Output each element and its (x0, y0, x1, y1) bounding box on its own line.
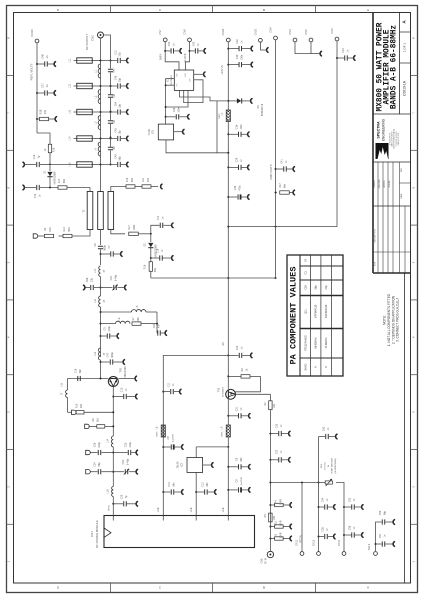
svg-text:C28: C28 (173, 107, 176, 112)
svg-text:KTY-63: KTY-63 (325, 462, 327, 470)
capacitor C59 (110, 139, 112, 147)
svg-text:RF POWER MODULE: RF POWER MODULE (95, 520, 99, 548)
svg-text:MRF6V4160: MRF6V4160 (325, 304, 328, 318)
svg-text:18p: 18p (119, 130, 122, 135)
zone ticks top margin (110, 5, 112, 13)
terminal CN4 (293, 38, 297, 42)
svg-text:8n2: 8n2 (113, 68, 116, 73)
wire row 2 (93, 85, 101, 87)
svg-text:RF OUTPUT: RF OUTPUT (85, 34, 89, 50)
capacitor C5 (100, 335, 102, 337)
svg-text:CN9: CN9 (269, 27, 273, 33)
svg-text:(IN HEATSINK): (IN HEATSINK) (334, 458, 337, 473)
capacitor C12 (110, 60, 112, 62)
svg-text:C23: C23 (236, 345, 239, 350)
svg-text:CN5: CN5 (304, 29, 308, 35)
wire row 5 (93, 164, 101, 166)
node D2 top (150, 233, 152, 235)
svg-text:C10: C10 (121, 387, 124, 392)
svg-text:10R: 10R (273, 404, 276, 409)
wire row 3 (93, 111, 101, 113)
approvals table (373, 161, 411, 163)
resistor R2 vertical (269, 394, 271, 401)
wire T1 left top (89, 188, 91, 192)
svg-text:MRF1535: MRF1535 (123, 366, 127, 378)
capacitor C30 (227, 64, 229, 66)
title section divider (373, 113, 411, 115)
svg-text:TR1: TR1 (119, 367, 123, 372)
terminal CN14 (342, 552, 346, 556)
wire PTT branch (269, 482, 271, 484)
svg-text:L11: L11 (69, 58, 72, 62)
resistor R3 (45, 234, 54, 237)
capacitor C47 (100, 361, 102, 363)
terminal CN21 (259, 38, 263, 42)
svg-text:150R: 150R (278, 520, 282, 526)
svg-text:C38: C38 (322, 527, 325, 532)
svg-text:A: A (367, 8, 369, 12)
capacitor C31 (110, 61, 112, 69)
inductor L13 (99, 348, 101, 360)
capacitor C7 (100, 253, 102, 255)
size box A (400, 31, 411, 33)
svg-text:56p: 56p (119, 156, 122, 161)
svg-text:NOTE:: NOTE: (383, 315, 387, 325)
wire CN3 rail (336, 41, 338, 227)
capacitor C52 stub (343, 506, 345, 508)
svg-text:C22: C22 (153, 323, 156, 328)
svg-text:78L05: 78L05 (177, 461, 180, 468)
wire IC5 bottom (166, 140, 217, 153)
svg-text:R12: R12 (273, 521, 277, 526)
svg-text:TR2: TR2 (218, 387, 221, 392)
svg-text:C40: C40 (342, 48, 345, 53)
svg-text:100R: 100R (278, 532, 282, 538)
wire CN4 CN5 ground (295, 42, 311, 54)
svg-text:A: A (367, 586, 369, 590)
wire x318 down (318, 483, 320, 552)
svg-text:2k2: 2k2 (97, 417, 100, 422)
resistor R8 bridge (227, 375, 229, 377)
capacitor C44 (110, 86, 112, 94)
bypass stub top (151, 225, 160, 234)
capacitor C16 (77, 376, 79, 381)
svg-text:R47: R47 (279, 183, 282, 188)
logo mark (376, 143, 389, 159)
svg-text:3. CONNECT PADS G,H,D,E,J: 3. CONNECT PADS G,H,D,E,J (396, 298, 400, 342)
resistor R7 (132, 322, 141, 325)
svg-text:56p: 56p (98, 462, 101, 467)
wire x157 (156, 312, 158, 333)
svg-text:IC5: IC5 (152, 129, 155, 133)
stripline L14 (74, 138, 93, 140)
svg-text:FWD VOLTS: FWD VOLTS (269, 164, 273, 179)
svg-text:C37: C37 (276, 449, 279, 454)
svg-text:100n: 100n (240, 124, 243, 130)
terminal CN6 RF IN (267, 551, 273, 557)
svg-text:18p: 18p (113, 146, 116, 151)
svg-text:+12V IN: +12V IN (220, 65, 224, 75)
choke L9 (226, 425, 230, 437)
ground IC3 right (198, 73, 203, 75)
terminal CN7 (163, 38, 167, 42)
diode D5 (227, 100, 229, 102)
svg-text:C43: C43 (192, 41, 195, 46)
svg-text:68n: 68n (240, 457, 243, 462)
pad B (33, 234, 38, 238)
svg-text:56R: 56R (68, 227, 71, 232)
inductor L5 (132, 310, 147, 312)
svg-text:C34: C34 (322, 497, 325, 502)
svg-text:C50: C50 (379, 510, 382, 515)
svg-text:REFL VOLTS: REFL VOLTS (30, 63, 34, 80)
terminal CN10 (35, 39, 39, 43)
svg-text:470u: 470u (239, 185, 242, 191)
resistor R14 (58, 186, 67, 189)
capacitor C20 (112, 503, 114, 505)
svg-text:C48: C48 (115, 75, 118, 80)
wire TR2 down (227, 398, 229, 425)
svg-text:C13: C13 (34, 193, 37, 198)
svg-text:CV2: CV2 (122, 459, 125, 464)
PA component values table (287, 255, 343, 376)
svg-text:MRC: MRC (222, 431, 224, 436)
svg-text:18p: 18p (113, 93, 116, 98)
svg-text:120p: 120p (129, 442, 132, 448)
resistor R47 (275, 192, 277, 194)
capacitor C63 (110, 112, 112, 120)
svg-text:B: B (263, 8, 265, 12)
svg-text:CN7: CN7 (158, 29, 162, 35)
svg-text:C29: C29 (236, 157, 239, 162)
terminal CN22 +12V (226, 38, 230, 42)
svg-text:C35: C35 (234, 185, 237, 190)
stripline L15 (73, 164, 93, 166)
capacitor C58 stub (343, 534, 345, 536)
capacitor C21 stub (227, 415, 229, 417)
inductor L16 (112, 487, 114, 497)
svg-text:PTT IN: PTT IN (300, 535, 303, 543)
svg-text:BZW03C16: BZW03C16 (261, 103, 264, 116)
svg-text:74-88MHz: 74-88MHz (325, 337, 328, 349)
wire stub x113 (112, 516, 114, 521)
capacitor C43 (189, 50, 191, 52)
svg-text:C49: C49 (115, 154, 118, 159)
svg-text:C46: C46 (41, 54, 45, 59)
svg-text:PA COMPONENT VALUES: PA COMPONENT VALUES (289, 267, 299, 365)
resistor R17 (129, 232, 139, 235)
svg-text:TEMP SENSOR: TEMP SENSOR (332, 458, 334, 474)
wire choke bypass (217, 101, 228, 153)
trimmer CV2 (113, 471, 124, 473)
terminal CN8 (188, 38, 192, 42)
wire TR1 base row (68, 378, 109, 380)
wire branch y312 (100, 311, 102, 313)
capacitor C41 (275, 168, 277, 170)
terminal CN5 (309, 38, 313, 42)
svg-text:C58: C58 (349, 525, 352, 530)
svg-text:68p: 68p (384, 510, 387, 515)
wire row 4 (93, 138, 101, 140)
inductor L2 (98, 90, 100, 104)
inductor L3 (98, 116, 100, 130)
svg-text:560p: 560p (104, 245, 107, 251)
wire to +12V rail (180, 93, 218, 101)
zone ticks bottom margin (110, 583, 112, 593)
capacitor C32 (227, 48, 229, 50)
svg-text:18p: 18p (113, 119, 116, 124)
capacitor C38 stub (318, 536, 320, 538)
svg-text:4u7/63V: 4u7/63V (173, 433, 175, 442)
svg-text:C11: C11 (168, 382, 171, 387)
svg-text:10k: 10k (43, 109, 47, 114)
wire RF output right to cap ladder (104, 35, 111, 61)
inductor L6 (116, 321, 131, 323)
svg-text:R1: R1 (273, 533, 277, 537)
svg-text:C12: C12 (202, 482, 205, 487)
svg-text:DRAWN: DRAWN (373, 180, 376, 188)
resistor R15 (126, 185, 135, 188)
svg-text:CN2: CN2 (91, 35, 95, 41)
wire C50 cluster (376, 522, 382, 551)
revision table (377, 206, 379, 273)
capacitor C33 stub (269, 433, 271, 435)
svg-text:L16: L16 (107, 489, 110, 494)
svg-text:+VE: +VE (189, 507, 193, 512)
wire CN10 down (36, 43, 38, 133)
wire CN8 down (185, 42, 189, 70)
wire jog to R19 (37, 133, 50, 144)
svg-text:L17: L17 (94, 268, 97, 273)
svg-text:100n: 100n (240, 54, 243, 60)
sheet box 1 OF 1 (400, 62, 411, 64)
terminal CN2 RF OUTPUT (98, 32, 104, 38)
stripline L12 (74, 85, 93, 87)
capacitor C51 (376, 543, 382, 545)
resistor R12 stub (269, 526, 271, 528)
capacitor C29 (227, 166, 229, 168)
capacitor C42 (164, 50, 166, 52)
svg-text:CLOCK: CLOCK (183, 53, 187, 62)
svg-text:APPR'D: APPR'D (383, 180, 386, 188)
svg-text:FAX 94 10 2511: FAX 94 10 2511 (397, 133, 400, 146)
transformer T1 bars (87, 192, 93, 230)
wire IC2 top (196, 446, 228, 448)
svg-text:CN4: CN4 (288, 29, 292, 35)
svg-text:C13: C13 (168, 482, 171, 487)
svg-text:66-80MHz: 66-80MHz (315, 337, 318, 349)
wire T1 right bottom (111, 230, 125, 234)
pad H (85, 424, 90, 428)
svg-text:ENGINEERING: ENGINEERING (382, 118, 386, 141)
svg-text:+VE: +VE (221, 507, 225, 512)
capacitor C6 (98, 245, 103, 247)
svg-text:L12: L12 (94, 298, 97, 303)
IC5 box (158, 124, 173, 140)
wire bias bus y278 (151, 277, 276, 279)
svg-text:68n: 68n (173, 482, 176, 487)
svg-text:56R: 56R (154, 268, 157, 273)
resistor R19 (48, 144, 51, 153)
svg-text:C19: C19 (33, 154, 36, 159)
svg-text:220p: 220p (98, 442, 101, 448)
capacitor C15 stub (227, 354, 229, 356)
resistor R6 (89, 425, 97, 427)
wire y355 feed (163, 355, 228, 516)
wire TR2 emitter row (236, 393, 271, 395)
svg-text:C53: C53 (323, 426, 326, 431)
svg-text:C0010-1A: C0010-1A (403, 80, 407, 96)
wire row 1 (93, 60, 101, 62)
wire CN21 ground (260, 42, 266, 50)
ground R11 (161, 184, 162, 189)
svg-text:ISSUED: ISSUED (389, 180, 391, 188)
svg-text:L14: L14 (69, 136, 72, 141)
svg-text:R17: R17 (128, 225, 131, 230)
svg-text:C20: C20 (121, 494, 124, 499)
svg-text:SPECTRA: SPECTRA (377, 121, 381, 139)
svg-text:C52: C52 (349, 497, 352, 502)
svg-text:DATA: DATA (159, 53, 163, 60)
wire T1 left bottom (73, 230, 91, 237)
choke L7 (226, 110, 230, 122)
svg-text:MRC: MRC (219, 113, 221, 118)
pad G (68, 411, 72, 413)
capacitor C25 right (113, 452, 127, 454)
svg-text:MMBD2869: MMBD2869 (54, 171, 57, 184)
resistor R1 stub (269, 538, 271, 540)
svg-text:47n: 47n (158, 323, 161, 328)
capacitor C11 stub x163 (162, 391, 164, 393)
svg-text:CN8: CN8 (183, 29, 187, 35)
wire IC3 left rail (166, 79, 169, 125)
svg-text:DATE: DATE (400, 193, 403, 199)
svg-text:C41: C41 (281, 159, 284, 164)
svg-text:DESCRIPTION: DESCRIPTION (375, 229, 377, 243)
transistor TR1 (108, 377, 118, 387)
capacitor C18 (150, 257, 152, 259)
svg-text:5-40p: 5-40p (115, 274, 118, 281)
svg-text:+VE: +VE (156, 507, 160, 512)
title block divider column (399, 13, 401, 115)
wire bus y226 (227, 226, 229, 228)
svg-text:27p: 27p (91, 277, 94, 282)
svg-text:C66: C66 (86, 277, 89, 282)
inductor L4 (98, 142, 100, 156)
diode D1 (49, 166, 51, 171)
svg-text:100R: 100R (278, 499, 282, 505)
inductor L12 (99, 296, 101, 307)
svg-text:C33: C33 (276, 423, 279, 428)
svg-text:C17: C17 (41, 83, 45, 88)
svg-text:68n: 68n (79, 368, 82, 373)
capacitor C24 left (112, 471, 114, 473)
svg-text:C50: C50 (305, 285, 308, 290)
capacitor C26 left (112, 452, 114, 454)
svg-text:C25: C25 (125, 442, 128, 447)
wire x228 down (227, 278, 229, 389)
ground IC5 right (174, 131, 183, 133)
svg-text:CN13: CN13 (313, 539, 316, 546)
wire RV1 row (319, 482, 326, 484)
wire IC3 to rail (197, 73, 199, 75)
wire row to T1 (23, 185, 24, 190)
svg-text:Q11: Q11 (305, 309, 308, 314)
trimmer CV1 (101, 287, 113, 289)
potentiometer RV1 (325, 481, 332, 484)
capacitor C17 (36, 92, 38, 94)
resistor R18 (36, 118, 38, 120)
svg-text:FREQ RANGE: FREQ RANGE (305, 335, 308, 351)
svg-text:CN21: CN21 (253, 28, 257, 35)
terminal TA2 (374, 552, 378, 556)
svg-text:TL431: TL431 (148, 128, 151, 135)
svg-text:4k8: 4k8 (137, 317, 140, 322)
svg-text:MC34063: MC34063 (171, 74, 173, 84)
svg-text:C24: C24 (94, 462, 97, 467)
svg-text:C12: C12 (115, 50, 118, 55)
svg-text:22R: 22R (147, 178, 150, 183)
svg-text:IC2: IC2 (180, 462, 184, 467)
inductor L1 (98, 64, 100, 78)
svg-text:R19: R19 (53, 147, 56, 152)
stripline L11 (74, 60, 93, 62)
svg-text:ECN: ECN (375, 261, 377, 266)
svg-text:CV1: CV1 (110, 275, 113, 280)
transistor TR2 (226, 389, 236, 399)
svg-text:L14: L14 (107, 438, 110, 443)
svg-text:RF IN: RF IN (109, 505, 111, 511)
svg-text:C30: C30 (236, 54, 239, 59)
svg-text:L12: L12 (69, 83, 72, 88)
svg-text:CN10: CN10 (30, 29, 34, 37)
svg-text:R15: R15 (126, 177, 129, 182)
terminal CN3 (335, 37, 339, 41)
svg-text:MRC: MRC (157, 431, 159, 436)
svg-text:B: B (263, 586, 265, 590)
svg-text:120p: 120p (108, 326, 111, 332)
wire IC3 feedback (184, 80, 203, 103)
svg-text:CN14: CN14 (338, 539, 341, 546)
svg-text:C51: C51 (379, 533, 382, 538)
svg-text:MRF6V4150: MRF6V4150 (315, 304, 318, 318)
svg-text:C36: C36 (236, 124, 239, 129)
svg-text:56R: 56R (63, 179, 66, 184)
resistor R4 stub (269, 504, 271, 506)
svg-text:IC3: IC3 (166, 77, 170, 82)
ground IC2 right (203, 464, 212, 466)
connector CN1 body (104, 516, 255, 548)
wire R19 to node (49, 153, 51, 164)
inductor L17 (99, 266, 101, 277)
wire T1 center (100, 230, 102, 246)
svg-text:100R: 100R (133, 224, 136, 230)
ground TR1 right (119, 378, 135, 380)
svg-text:TA2-3: TA2-3 (368, 543, 371, 550)
terminal CN13 (317, 552, 321, 556)
capacitor C50 (381, 519, 383, 524)
capacitor C46 (36, 63, 38, 65)
capacitor C48 (110, 85, 112, 87)
svg-text:4k8: 4k8 (80, 403, 83, 408)
svg-text:CN3: CN3 (330, 28, 334, 34)
svg-text:18p: 18p (119, 103, 122, 108)
wire IC2 bottom (195, 472, 197, 516)
svg-text:5-40p: 5-40p (127, 458, 130, 465)
terminal CN12 (301, 483, 303, 552)
svg-text:68n: 68n (206, 482, 209, 487)
inductor L14 (111, 436, 113, 447)
